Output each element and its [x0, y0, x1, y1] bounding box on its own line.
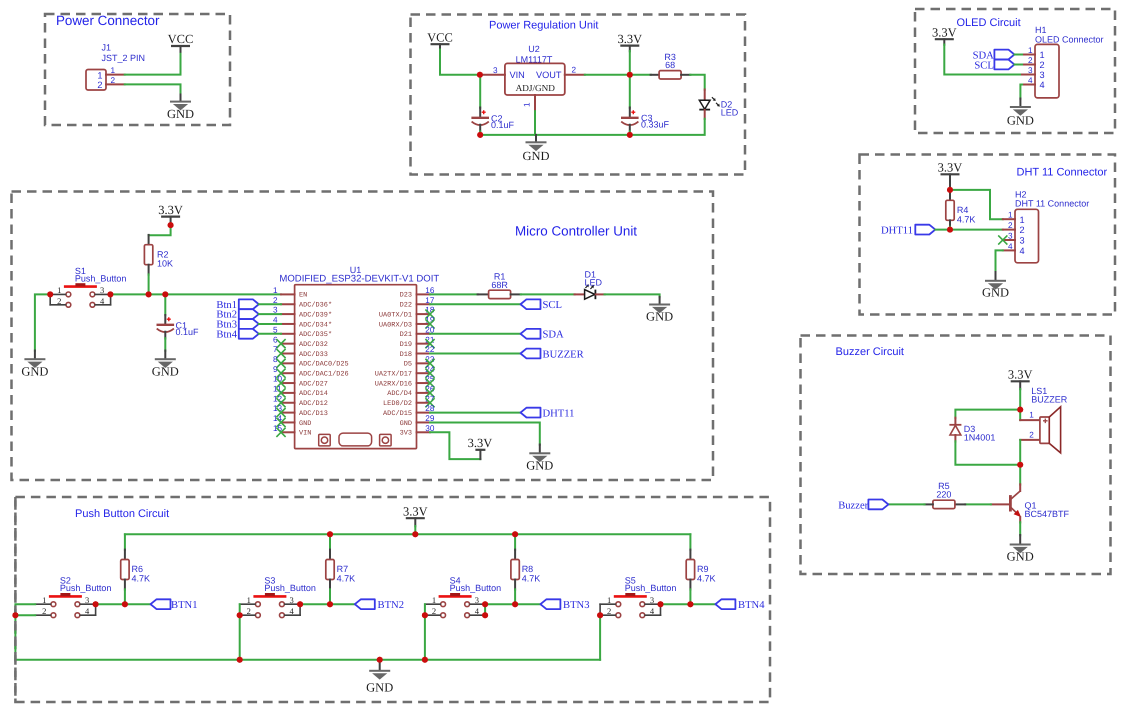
- svg-text:ADC/D33: ADC/D33: [299, 351, 328, 359]
- wire U2 pin1 to bottom rail: [534, 111, 536, 135]
- svg-text:GND: GND: [982, 285, 1009, 299]
- svg-text:BC547BTF: BC547BTF: [1025, 509, 1070, 519]
- wire bottom rail: [15, 659, 600, 661]
- node S3 pin2 junction: [237, 612, 243, 618]
- transistor Q1: [1019, 484, 1021, 491]
- node S4 pin4 junction: [482, 612, 488, 618]
- U1 pin 3 ADC/D39*: [281, 313, 295, 315]
- svg-text:MODIFIED_ESP32-DEVKIT-V1 DOIT: MODIFIED_ESP32-DEVKIT-V1 DOIT: [279, 273, 439, 284]
- node rail R7 junction: [327, 531, 333, 537]
- wire 3.3V to R2: [149, 225, 171, 235]
- U1 mounting pad left: [319, 434, 331, 446]
- connector H2 pin 1: [1003, 218, 1015, 220]
- push button S3 contacts: [256, 602, 261, 607]
- svg-text:OLED Circuit: OLED Circuit: [957, 17, 1021, 29]
- power flag 3.3V DHT: [941, 173, 960, 175]
- net flag DHT11 input: [915, 225, 935, 235]
- U1 pin 14 GND: [281, 421, 295, 423]
- ground symbol U1: [539, 445, 541, 453]
- wire bottom rail: [480, 134, 630, 136]
- svg-text:1: 1: [432, 595, 436, 605]
- svg-text:Push_Button: Push_Button: [450, 583, 502, 593]
- connector J1 pin 2: [106, 83, 125, 85]
- ground symbol S1: [34, 351, 36, 359]
- node rail R8 junction: [512, 531, 518, 537]
- svg-text:DHT 11 Connector: DHT 11 Connector: [1017, 167, 1108, 179]
- node buzzer top junction: [1017, 407, 1023, 413]
- buzzer LS1 body: [1040, 417, 1049, 443]
- svg-text:SCL: SCL: [543, 300, 562, 311]
- U1 pin 18 UA0TX/D1: [417, 313, 431, 315]
- svg-text:ADC/D15: ADC/D15: [383, 410, 412, 418]
- svg-text:D22: D22: [400, 302, 412, 310]
- capacitor C3: [629, 108, 631, 118]
- U1 pin 7 ADC/D33: [281, 353, 295, 355]
- node VIN junction: [477, 72, 483, 78]
- net flag Btn3: [239, 319, 259, 329]
- net flag SCL from U1: [430, 303, 521, 305]
- U1 pin 10 ADC/D27: [281, 382, 295, 384]
- svg-text:GND: GND: [1007, 550, 1034, 564]
- svg-text:3: 3: [1028, 66, 1033, 75]
- svg-text:ADC/D36*: ADC/D36*: [299, 302, 332, 310]
- svg-text:ADC/D39*: ADC/D39*: [299, 311, 332, 319]
- node C2 bottom junction: [477, 132, 483, 138]
- node S5 right junction: [658, 601, 664, 607]
- net flag SDA from U1: [430, 333, 521, 335]
- svg-text:BUZZER: BUZZER: [1031, 394, 1068, 404]
- connector H1 pin 4: [1022, 84, 1035, 86]
- svg-text:2: 2: [1040, 60, 1045, 70]
- svg-text:3: 3: [1040, 70, 1045, 80]
- svg-text:GND: GND: [1007, 114, 1034, 128]
- junction dots overlay: [477, 72, 483, 78]
- node R9 bottom junction: [687, 601, 693, 607]
- wire R5 to Buzzer flag: [888, 503, 924, 505]
- wire S2 pin2 link: [15, 614, 35, 616]
- wire base to R5: [965, 503, 991, 505]
- svg-text:Power Regulation Unit: Power Regulation Unit: [489, 20, 598, 32]
- node R4 top junction: [947, 187, 953, 193]
- svg-text:VCC: VCC: [168, 32, 194, 46]
- U1 pin 28 ADC/D15: [417, 412, 431, 414]
- svg-text:4: 4: [650, 606, 655, 616]
- push button S2 actuator: [49, 595, 82, 598]
- power flag 3.3V OLED: [935, 38, 954, 40]
- resistor R3: [651, 74, 660, 76]
- U1 pin 30 3V3: [417, 431, 431, 433]
- node S2 pin2 junction: [12, 612, 18, 618]
- svg-text:BTN4: BTN4: [738, 600, 765, 611]
- svg-text:D23: D23: [400, 292, 412, 300]
- power flag VCC: [180, 46, 182, 52]
- U1 pin 15 VIN: [281, 431, 295, 433]
- wire S2 to BTN1 flag: [96, 603, 151, 605]
- U1 pin 1 EN: [281, 293, 295, 295]
- wire U1 GND pin29: [430, 422, 540, 444]
- connector H1 pin 3: [1022, 74, 1035, 76]
- svg-text:SDA: SDA: [543, 330, 565, 341]
- svg-text:BTN3: BTN3: [563, 600, 589, 611]
- svg-text:GND: GND: [152, 364, 179, 378]
- svg-text:H1: H1: [1035, 25, 1047, 35]
- net flag BTN4: [715, 599, 735, 609]
- node R2 junction: [146, 291, 152, 297]
- svg-text:Push_Button: Push_Button: [75, 273, 127, 283]
- svg-text:GND: GND: [366, 681, 393, 695]
- svg-text:Buzzer Circuit: Buzzer Circuit: [836, 346, 904, 358]
- node VOUT junction: [627, 72, 633, 78]
- section box Power Connector: [45, 14, 230, 125]
- svg-text:ADC/D12: ADC/D12: [299, 400, 328, 408]
- wire R4 bottom: [949, 227, 951, 230]
- svg-text:3: 3: [650, 595, 654, 605]
- ground symbol Q1: [1019, 535, 1021, 544]
- U1 pin 25 UA2RX/D16: [417, 382, 431, 384]
- section box Push Button Circuit left border overlay: [14, 497, 17, 702]
- svg-text:4.7K: 4.7K: [132, 574, 151, 584]
- svg-text:Push_Button: Push_Button: [625, 583, 677, 593]
- node bottom rail S4 junction: [422, 657, 428, 663]
- svg-text:1: 1: [523, 102, 532, 107]
- push button S4 contacts: [441, 602, 446, 607]
- svg-text:UA2RX/D16: UA2RX/D16: [375, 380, 412, 388]
- svg-text:VOUT: VOUT: [536, 70, 562, 80]
- wire top rail: [125, 533, 691, 535]
- svg-text:1: 1: [97, 70, 102, 80]
- wire SCL to pin2: [1014, 64, 1022, 66]
- node bottom rail GND junction: [377, 657, 383, 663]
- node rail 3.3V junction: [412, 531, 418, 537]
- U1 pin 11 ADC/D14: [281, 392, 295, 394]
- svg-text:1: 1: [1040, 50, 1045, 60]
- svg-text:1: 1: [607, 595, 611, 605]
- U1 pin 24 UA2TX/D17: [417, 372, 431, 374]
- wire S2 left loop to rail: [15, 604, 35, 660]
- wire S5 left to rail: [599, 615, 601, 660]
- svg-text:ADC/D13: ADC/D13: [299, 410, 328, 418]
- power flag 3.3V U1: [479, 450, 481, 459]
- svg-text:ADC/D27: ADC/D27: [299, 380, 328, 388]
- svg-text:2: 2: [432, 606, 436, 616]
- svg-text:U2: U2: [528, 44, 540, 54]
- svg-text:2: 2: [57, 296, 61, 306]
- U2 pin 1 ADJ: [534, 95, 536, 112]
- svg-text:3.3V: 3.3V: [617, 32, 642, 46]
- U2 pin 2 VOUT: [565, 74, 585, 76]
- wire D3 to collector junction: [955, 441, 1020, 465]
- U1 pin 13 ADC/D13: [281, 412, 295, 414]
- svg-text:4: 4: [475, 606, 480, 616]
- U1 pin 22 D18: [417, 353, 431, 355]
- wire junction to C3: [629, 75, 631, 108]
- node S1 left junction: [47, 291, 53, 297]
- section box DHT 11 Connector: [860, 155, 1116, 315]
- svg-text:3: 3: [85, 595, 89, 605]
- wire R2 to main net: [148, 274, 150, 294]
- wire C1 to GND: [164, 338, 166, 351]
- wire junction to Q1 collector: [1019, 465, 1021, 485]
- svg-text:1N4001: 1N4001: [964, 433, 996, 443]
- svg-text:ADC/DAC1/D26: ADC/DAC1/D26: [299, 371, 349, 379]
- svg-text:UA0TX/D1: UA0TX/D1: [379, 311, 412, 319]
- no-connect mark H2 pin3: [998, 235, 1007, 244]
- wire main EN net: [110, 293, 281, 295]
- U1 pin 26 ADC/D4: [417, 392, 431, 394]
- svg-text:2: 2: [1029, 430, 1034, 439]
- led D2: [704, 90, 706, 101]
- svg-text:4.7K: 4.7K: [697, 574, 716, 584]
- svg-text:VIN: VIN: [299, 430, 311, 438]
- U1 pin 20 D21: [417, 333, 431, 335]
- node S2 right junction: [93, 601, 99, 607]
- svg-text:ADC/D34*: ADC/D34*: [299, 321, 332, 329]
- connector H2 pin 3: [1003, 239, 1015, 241]
- U1 pin 6 ADC/D32: [281, 343, 295, 345]
- svg-text:GND: GND: [299, 420, 311, 428]
- net flag BTN2: [355, 599, 375, 609]
- node collector junction: [1017, 462, 1023, 468]
- svg-text:Buzzer: Buzzer: [838, 500, 868, 511]
- svg-text:ADC/D4: ADC/D4: [387, 390, 412, 398]
- node S3 right junction: [297, 601, 303, 607]
- svg-text:2: 2: [607, 606, 611, 616]
- ground symbol push buttons: [379, 660, 381, 670]
- svg-text:EN: EN: [299, 292, 307, 300]
- svg-text:3.3V: 3.3V: [403, 504, 428, 518]
- svg-text:GND: GND: [21, 364, 48, 378]
- section box Power Regulation Unit: [411, 15, 746, 175]
- power flag 3.3V buzzer: [1011, 380, 1030, 382]
- connector H1 pin 1: [1022, 54, 1035, 56]
- svg-text:LED: LED: [585, 277, 603, 287]
- svg-text:ADC/DAC0/D25: ADC/DAC0/D25: [299, 361, 349, 369]
- svg-text:Push_Button: Push_Button: [264, 583, 316, 593]
- svg-text:UA2TX/D17: UA2TX/D17: [375, 371, 412, 379]
- svg-text:Push Button Circuit: Push Button Circuit: [75, 508, 169, 520]
- svg-text:GND: GND: [526, 459, 553, 473]
- wire DHT11 to H2 pin2: [935, 229, 1003, 231]
- svg-text:GND: GND: [167, 107, 194, 121]
- svg-text:0.1uF: 0.1uF: [491, 120, 515, 130]
- U1 pin 2 ADC/D36*: [281, 303, 295, 305]
- mcu U1 body: [295, 285, 417, 449]
- push button S1 contacts: [66, 292, 71, 297]
- U1 pin 29 GND: [417, 421, 431, 423]
- push button S4 actuator: [439, 595, 472, 598]
- wire J1 pin2 to GND: [125, 84, 181, 95]
- wire U1 D23 to R1: [430, 293, 478, 295]
- node bottom rail S3 junction: [237, 657, 243, 663]
- wire 3.3V to H1 pin3: [944, 45, 1022, 75]
- connector J1 body: [86, 70, 106, 91]
- U1 pin 17 D22: [417, 303, 431, 305]
- svg-text:GND: GND: [646, 310, 673, 324]
- svg-text:2: 2: [247, 606, 251, 616]
- wire S4 right link: [484, 604, 486, 615]
- wire SDA to pin1: [1014, 54, 1022, 56]
- net flag BTN1: [151, 599, 171, 609]
- resistor R4: [949, 174, 951, 200]
- ground symbol DHT: [995, 272, 997, 280]
- svg-text:DHT11: DHT11: [881, 225, 913, 236]
- svg-text:3: 3: [1020, 236, 1025, 246]
- wire Btn3 to U1: [259, 323, 281, 325]
- wire S3 left loop to rail: [239, 604, 241, 660]
- U1 pin 9 ADC/DAC1/D26: [281, 372, 295, 374]
- wire D2 to bottom rail: [630, 119, 705, 135]
- svg-text:68: 68: [665, 60, 675, 70]
- resistor R2: [148, 235, 150, 245]
- connector J1 pin 1: [106, 74, 125, 76]
- power flag 3.3V MCU: [161, 216, 180, 218]
- ground symbol OLED: [1019, 99, 1021, 107]
- wire S1 to GND: [35, 294, 50, 350]
- push button S5 pin lines: [600, 604, 660, 615]
- net flag Buzzer input: [868, 500, 888, 510]
- node C3 bottom junction: [627, 132, 633, 138]
- wire C3 to bottom rail: [629, 131, 631, 135]
- svg-text:D19: D19: [400, 341, 412, 349]
- power flag 3.3V regulator output: [620, 44, 639, 46]
- net flag Btn1: [239, 299, 259, 309]
- wire Q1 emitter to GND: [1019, 522, 1021, 535]
- wire junction to C2: [479, 75, 481, 108]
- wire VCC to VIN: [440, 50, 480, 75]
- resistor R7: [329, 534, 331, 550]
- wire H2 pin4 to GND: [996, 250, 1003, 272]
- wire S4 left loop to rail: [424, 604, 426, 660]
- svg-text:4: 4: [1040, 80, 1045, 90]
- wire Btn2 to U1: [259, 313, 281, 315]
- svg-text:SCL: SCL: [974, 60, 993, 71]
- ground symbol D1: [659, 297, 661, 304]
- wire C1 top: [164, 294, 166, 315]
- wire C2 to bottom rail: [479, 131, 481, 135]
- wire S5 to BTN4 flag: [661, 603, 716, 605]
- svg-text:DHT11: DHT11: [543, 409, 575, 420]
- wire J1 pin1 to VCC: [125, 52, 181, 75]
- node S5 pin2 junction: [597, 612, 603, 618]
- node R6 bottom junction: [122, 601, 128, 607]
- svg-text:0.1uF: 0.1uF: [176, 327, 200, 337]
- connector H2 body: [1015, 209, 1039, 262]
- capacitor C1: [164, 315, 166, 325]
- svg-text:2: 2: [1020, 225, 1025, 235]
- U1 mounting pad right: [380, 434, 392, 446]
- resistor R6: [124, 534, 126, 550]
- U1 pin 19 UA0RX/D3: [417, 323, 431, 325]
- svg-text:2: 2: [1028, 56, 1033, 65]
- wire D1 to GND: [605, 294, 660, 297]
- svg-text:DHT 11 Connector: DHT 11 Connector: [1015, 198, 1089, 208]
- resistor R5: [955, 503, 965, 505]
- svg-text:3.3V: 3.3V: [938, 161, 963, 175]
- regulator U2 body: [505, 63, 565, 95]
- svg-text:2: 2: [97, 80, 102, 90]
- wire H1 pin4 to GND: [1020, 85, 1022, 99]
- svg-text:2: 2: [1008, 221, 1013, 230]
- svg-text:Push_Button: Push_Button: [60, 583, 112, 593]
- U2 pin 3 VIN: [480, 74, 505, 76]
- net flag BUZZER from U1: [430, 353, 521, 355]
- svg-text:1: 1: [1028, 46, 1033, 55]
- wire junction to D3: [955, 410, 1020, 418]
- ground symbol C1: [164, 351, 166, 359]
- svg-text:ADC/D35*: ADC/D35*: [299, 331, 332, 339]
- svg-text:3.3V: 3.3V: [1008, 368, 1033, 382]
- svg-text:BUZZER: BUZZER: [543, 349, 585, 360]
- svg-text:2: 2: [42, 606, 46, 616]
- svg-text:2: 2: [572, 66, 577, 75]
- net flag Btn2: [239, 309, 259, 319]
- svg-text:GND: GND: [522, 149, 549, 163]
- svg-text:1: 1: [273, 286, 278, 295]
- push button S5 contacts: [616, 602, 621, 607]
- power flag VCC input: [431, 43, 450, 45]
- node S4 pin3 junction: [482, 601, 488, 607]
- svg-text:D18: D18: [400, 351, 412, 359]
- svg-text:UA0RX/D3: UA0RX/D3: [379, 321, 412, 329]
- wire R4 top to H2 pin1: [950, 190, 1003, 219]
- U1 pin 27 LED0/D2: [417, 402, 431, 404]
- wire buzzer pin1: [1019, 410, 1021, 421]
- svg-text:1: 1: [247, 595, 251, 605]
- section box Push Button Circuit: [15, 497, 770, 702]
- push button S1 pin lines: [50, 294, 110, 304]
- svg-text:3.3V: 3.3V: [468, 436, 493, 450]
- svg-text:3: 3: [100, 285, 104, 295]
- capacitor C2: [479, 108, 481, 118]
- svg-text:VIN: VIN: [510, 70, 525, 80]
- svg-text:LED: LED: [721, 107, 739, 117]
- net flag SCL to H1: [994, 60, 1014, 70]
- push button S5 actuator: [614, 595, 647, 598]
- svg-text:4.7K: 4.7K: [522, 574, 541, 584]
- svg-text:3.3V: 3.3V: [932, 25, 957, 39]
- svg-text:68R: 68R: [491, 280, 508, 290]
- push button S2 contacts: [51, 602, 56, 607]
- U1 pin 23 D5: [417, 362, 431, 364]
- svg-text:3.3V: 3.3V: [158, 203, 183, 217]
- U1 pin 16 D23: [417, 293, 431, 295]
- svg-text:3: 3: [1008, 231, 1013, 240]
- connector H1 body: [1035, 44, 1059, 98]
- svg-text:0.33uF: 0.33uF: [641, 120, 670, 130]
- svg-text:1: 1: [1020, 215, 1025, 225]
- push button S3 actuator: [253, 595, 286, 598]
- svg-text:ADC/D32: ADC/D32: [299, 341, 328, 349]
- svg-text:220: 220: [936, 490, 951, 500]
- svg-text:3: 3: [475, 595, 479, 605]
- net flag SDA to H1: [994, 50, 1014, 60]
- svg-text:Power Connector: Power Connector: [56, 13, 160, 28]
- push button S1 actuator: [64, 285, 97, 288]
- svg-text:3V3: 3V3: [400, 430, 412, 438]
- svg-text:GND: GND: [400, 420, 412, 428]
- node S1 right junction: [107, 291, 113, 297]
- node C1 junction: [162, 291, 168, 297]
- net flag DHT11 from U1: [430, 412, 521, 414]
- svg-text:LED0/D2: LED0/D2: [383, 400, 412, 408]
- U1 pin 4 ADC/D34*: [281, 323, 295, 325]
- U1 antenna block: [339, 433, 372, 446]
- svg-text:1: 1: [111, 66, 116, 75]
- svg-text:ADC/D14: ADC/D14: [299, 390, 328, 398]
- resistor R8: [514, 534, 516, 550]
- wire 3.3V to junction: [629, 51, 631, 75]
- svg-text:BTN2: BTN2: [378, 600, 404, 611]
